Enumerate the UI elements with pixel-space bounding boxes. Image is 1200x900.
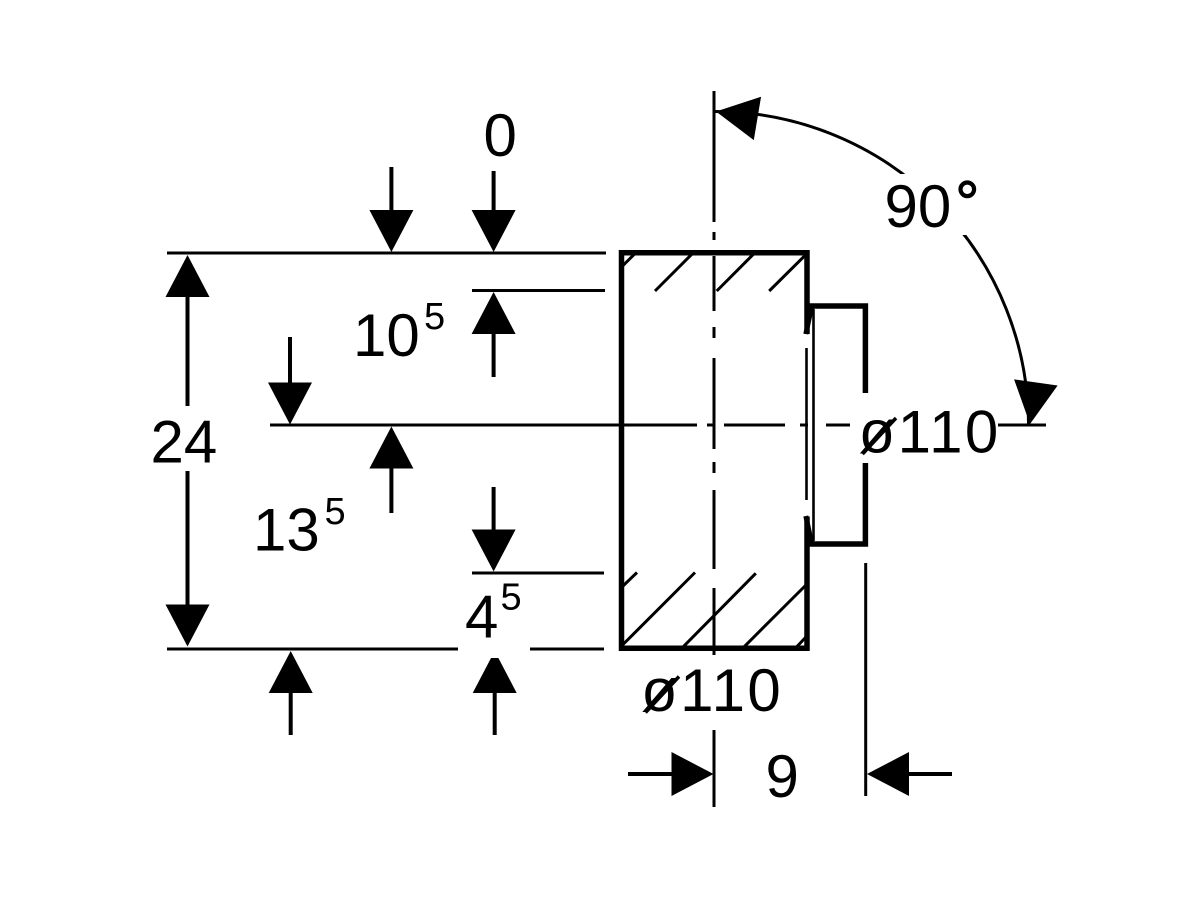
svg-text:24: 24 [151,409,218,476]
dia slash right [863,418,897,454]
inner line spigot [805,348,808,500]
svg-text:4: 4 [465,584,498,651]
hatch top 4 [769,255,806,291]
hatch bottom 4 [744,585,806,647]
svg-text:5: 5 [325,491,346,533]
socket extension line [864,563,867,796]
arrow arc top [712,90,761,140]
angle arc 90 [714,111,1029,425]
halo o110 right [850,393,998,463]
hatch bottom 5 corner [797,637,807,647]
hatch top corner [623,253,636,266]
hatch top 3 [717,254,754,291]
arrow level0 left [369,210,413,252]
degree circle [961,183,975,197]
vertical centerline [713,91,716,807]
level line A [472,289,605,292]
inner line socket [812,309,815,541]
dia slash bottom [646,677,680,713]
arrow levelB down [472,530,516,572]
horizontal centerline [270,424,1046,427]
halo o110 bottom [634,658,789,722]
socket outline [809,306,866,544]
svg-text:90: 90 [885,173,952,240]
hatch top 2 [655,254,692,291]
fitting body outline [622,253,808,649]
halo 24 [146,406,226,471]
arrow bottom up right [473,651,517,693]
svg-text:5: 5 [501,577,522,619]
svg-text:ø110: ø110 [641,657,783,724]
dim 24 line [186,290,190,610]
wedge top [806,308,812,335]
arrow centerline up [369,427,413,469]
svg-text:ø110: ø110 [859,399,1001,466]
halo 90deg [880,174,968,235]
arrow bottom up left [269,651,313,693]
level line 0 [167,252,606,255]
svg-text:0: 0 [484,102,517,169]
arrow 24 up [166,255,210,297]
svg-text:9: 9 [766,743,799,810]
hatch bottom 3 [683,573,756,646]
halo 4-5 [458,575,530,658]
arrow arc bottom [1008,379,1057,427]
svg-text:13: 13 [253,497,320,564]
arrow level0 right [472,210,516,252]
hatch bottom 2 [623,573,696,646]
arrow dim9 left [867,752,909,796]
arrow dim9 right [672,752,714,796]
level line 24 bottom [167,648,604,651]
hatch bottom corner [623,573,637,587]
arrow levelA up [472,292,516,334]
svg-text:10: 10 [353,302,420,369]
level line B [472,572,604,575]
arrow 24 down [166,605,210,647]
arrow centerline down [268,383,312,425]
svg-text:5: 5 [424,296,445,338]
wedge bottom [806,516,812,543]
